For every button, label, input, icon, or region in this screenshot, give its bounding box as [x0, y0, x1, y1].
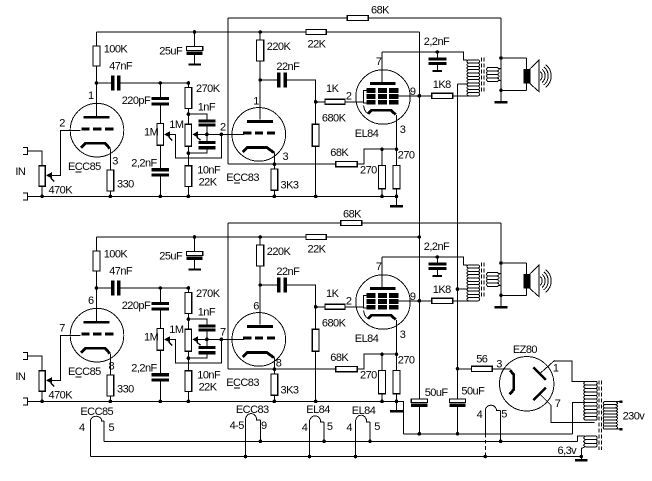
- svg-text:68K: 68K: [330, 147, 349, 159]
- tube EL84 (left ch) anode plate: [370, 82, 395, 85]
- speaker (right ch) cone: [530, 265, 539, 297]
- svg-text:ECC83: ECC83: [236, 404, 269, 416]
- svg-text:ECC83: ECC83: [226, 172, 259, 184]
- wire EL84 left pin lead: [355, 422, 357, 457]
- resistor 100K (right ch): [93, 251, 100, 271]
- resistor 270 a (left ch): [379, 165, 386, 188]
- heater connector EZ80h: [485, 405, 500, 410]
- wire pin9 to 1K8 (left ch): [419, 95, 432, 97]
- resistor 3K3 (left ch): [271, 169, 278, 190]
- speaker (right ch) magnet: [524, 274, 530, 289]
- tube EL84 (right ch) envelope: [356, 275, 410, 329]
- wire 1M right bottom (left ch): [187, 146, 189, 153]
- wire 10nF top lead (left ch): [206, 134, 208, 140]
- wire 270a bottom lead (right ch): [381, 394, 383, 402]
- OT secondary winding (left ch): [487, 68, 499, 82]
- svg-text:1M: 1M: [144, 127, 159, 139]
- wire B+ rail (left ch): [97, 31, 307, 33]
- wire EL84 anode to OT (left ch): [382, 52, 467, 60]
- resistor 68K bias (right ch): [336, 367, 358, 372]
- wire HT ground bus: [403, 433, 572, 435]
- tube ECC83 (left ch) envelope: [232, 108, 286, 162]
- tube ECC83 (right ch) label underline: [234, 387, 240, 389]
- resistor 220K (right ch): [257, 245, 264, 266]
- wire 330 to ground (left ch): [109, 191, 111, 196]
- wire 680K to ground (left ch): [315, 146, 317, 196]
- wire 10nF top lead (right ch): [206, 339, 208, 345]
- svg-text:EL84: EL84: [306, 404, 330, 416]
- wire 25uF top lead (left ch): [194, 32, 196, 47]
- junction EL84 right pin: [368, 440, 372, 444]
- svg-text:330: 330: [117, 383, 134, 395]
- wire 680K top lead (left ch): [315, 102, 317, 125]
- junction 270K top (left ch): [187, 81, 191, 85]
- wire 1M right bottom (right ch): [187, 351, 189, 358]
- wire 1K8 to OT primary bottom (right ch): [453, 300, 479, 302]
- svg-text:100K: 100K: [104, 249, 129, 261]
- wire anode to 22nF (right ch): [260, 284, 277, 286]
- potentiometer 470K (left ch): [39, 166, 45, 187]
- wire 220K to ECC83 anode (left ch): [259, 61, 261, 80]
- wire feedback vertical (left ch): [227, 18, 229, 164]
- svg-text:1: 1: [553, 362, 559, 374]
- tube EZ80 anode 2 lead: [540, 394, 552, 406]
- resistor 22K (left ch): [185, 166, 192, 187]
- junction 1M/10nF/22K (right ch): [187, 356, 191, 360]
- wire speaker branch vertical (right ch): [500, 223, 502, 306]
- capacitor 2,2nF snubber (left ch): [428, 57, 446, 60]
- wire to ground symbol (right ch): [396, 401, 398, 409]
- junction ECC83 cathode (left ch): [273, 162, 277, 166]
- svg-text:1K8: 1K8: [433, 284, 451, 296]
- capacitor 47nF (left ch): [111, 76, 115, 91]
- wire 10nF bottom lead (right ch): [188, 355, 207, 359]
- PT 6,3v heater winding: [584, 436, 598, 447]
- svg-text:1: 1: [88, 90, 94, 102]
- wire 25uF top lead (right ch): [194, 237, 196, 252]
- wire raw B+ vertical line: [457, 84, 459, 399]
- wire 270K top lead (left ch): [187, 83, 189, 87]
- wire 22K top lead (right ch): [187, 358, 189, 371]
- OT primary winding (right ch): [467, 265, 480, 301]
- svg-text:22K: 22K: [308, 243, 327, 255]
- wire 470K wiper to ECC85 grid (right ch): [51, 335, 80, 380]
- svg-text:270: 270: [360, 165, 377, 177]
- svg-text:220pF: 220pF: [122, 300, 151, 312]
- wire 22nF to EL84 grid node (left ch): [287, 80, 316, 102]
- svg-text:4: 4: [302, 422, 308, 434]
- svg-text:2: 2: [346, 295, 352, 307]
- capacitor 50uF a: [411, 399, 427, 403]
- 230v terminal square top: [620, 400, 623, 403]
- ground EL84 cathode (right ch): [390, 410, 403, 413]
- junction EL84 cathode node (left ch): [395, 147, 399, 151]
- wire ECC83 grid (left ch): [198, 133, 245, 135]
- wire 270 bottoms link (right ch): [382, 400, 397, 402]
- wire 1nF bottom lead (right ch): [206, 332, 208, 340]
- tube ECC85 (left ch) anode plate: [84, 116, 110, 119]
- 25uF chassis bar (right ch): [188, 269, 201, 271]
- resistor 1K8 (left ch): [432, 93, 453, 98]
- svg-text:1M: 1M: [169, 324, 184, 336]
- wire pin9 to 1K8 (right ch): [419, 300, 432, 302]
- wire ECC83 pin1 anode lead (left ch): [259, 80, 261, 120]
- tube ECC85 (right ch) cathode: [81, 348, 110, 353]
- svg-text:9: 9: [261, 420, 267, 432]
- 230v terminal square bottom: [620, 428, 623, 431]
- heater connector ECC85: [91, 416, 105, 421]
- heater connector EL84: [310, 416, 325, 422]
- junction 2,2nF anode (right ch): [436, 255, 440, 259]
- junction 50uF b bus: [456, 432, 460, 436]
- tube ECC83 (left ch) grid: [243, 132, 251, 135]
- wire 270b top lead (left ch): [396, 149, 398, 165]
- svg-text:2: 2: [220, 121, 226, 133]
- wiper arrow 470K (left ch): [46, 172, 52, 178]
- wire ground rail (right ch): [28, 400, 397, 402]
- resistor 680K (right ch): [312, 329, 319, 351]
- wire 47nF to tone network (left ch): [121, 82, 189, 84]
- svg-text:2,2nF: 2,2nF: [131, 157, 157, 169]
- wire 1K to EL84 pin2 (left ch): [345, 101, 363, 103]
- wire ECC85 pin6 anode lead (right ch): [96, 288, 98, 321]
- wire 330 to ground (right ch): [109, 396, 111, 401]
- wire 68K to EL84 cathode node (left ch): [357, 149, 396, 164]
- junction 2,2nF ground (right ch): [159, 400, 163, 404]
- wire 220pF top lead (right ch): [159, 288, 161, 302]
- tube EZ80 envelope: [500, 357, 554, 411]
- wiper arrow 1M left (right ch): [164, 336, 170, 342]
- input jack hot contact (right ch): [23, 353, 28, 360]
- svg-text:ECC85: ECC85: [80, 406, 113, 418]
- wire 270K bottom node (right ch): [187, 313, 189, 319]
- svg-text:1nF: 1nF: [198, 101, 216, 113]
- wire 1M left wiper (right ch): [170, 339, 222, 363]
- resistor 1K (right ch): [325, 304, 345, 309]
- wire 220pF top lead (left ch): [159, 83, 161, 97]
- junction 330 ground (left ch): [109, 195, 113, 199]
- junction 270a top (left ch): [380, 147, 384, 151]
- svg-text:8: 8: [109, 361, 115, 373]
- ground speaker (left ch): [495, 101, 508, 104]
- tube ECC85 (right ch) grid: [81, 332, 89, 335]
- tube ECC83 (left ch) anode plate: [247, 120, 273, 123]
- wire right ch ground to bus: [396, 401, 403, 433]
- resistor 270K (left ch): [185, 87, 192, 108]
- wire 68K to EL84 cathode node (right ch): [357, 354, 396, 369]
- resistor 680K (left ch): [312, 124, 319, 146]
- speaker (left ch) coupling wire bottom: [501, 89, 526, 91]
- wire ECC83 cathode lead (right ch): [273, 358, 275, 370]
- junction 2,2nF ground (left ch): [159, 195, 163, 199]
- junction grid node 1nF (right ch): [205, 338, 209, 342]
- resistor 270K (right ch): [185, 292, 192, 313]
- 25uF chassis bar (left ch): [188, 64, 201, 66]
- tube ECC83 (left ch) label underline: [234, 182, 240, 184]
- wire EL84 pin3 lead (right ch): [396, 320, 398, 354]
- tube ECC85 (left ch) label underline: [76, 171, 82, 173]
- capacitor 220pF (left ch): [152, 97, 169, 100]
- capacitor 220pF (right ch): [152, 302, 169, 305]
- wire 270a top lead (left ch): [381, 149, 383, 165]
- potentiometer 1M left (right ch): [157, 329, 163, 351]
- capacitor 1nF (left ch): [198, 119, 215, 122]
- wire 270a bottom lead (left ch): [381, 189, 383, 197]
- wire 25uF bottom lead (right ch): [194, 260, 196, 268]
- wire 100K top lead (right ch): [96, 237, 98, 251]
- junction speaker bottom (right ch): [499, 294, 503, 298]
- PT HV winding: [584, 381, 598, 420]
- wire 270b bottom lead (right ch): [396, 394, 398, 402]
- wire to 1K (left ch): [316, 101, 325, 103]
- potentiometer 470K (right ch): [39, 371, 45, 392]
- svg-text:270: 270: [398, 150, 415, 162]
- svg-text:1M: 1M: [144, 332, 159, 344]
- svg-text:270: 270: [398, 355, 415, 367]
- wire feedback to ECC83 cathode (left ch): [228, 163, 274, 165]
- wire cathode to 68K (right ch): [274, 368, 335, 370]
- wire 270K top lead (right ch): [187, 288, 189, 292]
- wire anode to 47nF (left ch): [97, 82, 111, 84]
- svg-text:230v: 230v: [623, 411, 646, 423]
- svg-text:ECC85: ECC85: [68, 366, 101, 378]
- svg-text:EL84: EL84: [355, 128, 379, 140]
- junction speaker top (right ch): [499, 261, 503, 265]
- wire 6,3v bus B: [91, 456, 582, 458]
- svg-text:8: 8: [276, 358, 282, 370]
- svg-text:6,3v: 6,3v: [558, 445, 578, 457]
- wire EL84 anode to OT (right ch): [382, 257, 467, 265]
- wire ECC83 right pin lead: [259, 420, 261, 442]
- wire EL84 right pin lead: [323, 422, 325, 441]
- resistor 22K (right ch): [185, 371, 192, 392]
- wire ECC85 cathode lead (left ch): [109, 148, 111, 170]
- junction screen line (right ch): [418, 299, 422, 303]
- wire 220pF to 1M pot (left ch): [159, 106, 161, 124]
- wire 3K3 to ground (left ch): [273, 190, 275, 196]
- tube ECC85 (right ch) envelope: [70, 308, 124, 362]
- wiper arrow 470K (right ch): [46, 377, 52, 383]
- capacitor 10nF (right ch): [198, 346, 215, 349]
- capacitor 1nF (right ch): [198, 324, 215, 327]
- junction wiper to grid wire (left ch): [220, 133, 224, 137]
- tube ECC85 (left ch) grid: [81, 127, 89, 130]
- svg-text:330: 330: [117, 178, 134, 190]
- speaker (left ch) cone: [530, 60, 539, 92]
- svg-text:3: 3: [400, 124, 406, 136]
- wire B+ rail (right ch): [97, 236, 307, 238]
- junction 25uF rail (left ch): [193, 30, 197, 34]
- resistor 68K feedback (left ch): [347, 15, 368, 20]
- svg-text:3K3: 3K3: [281, 384, 299, 396]
- svg-text:EL84: EL84: [352, 405, 376, 417]
- ground heater: [575, 459, 588, 462]
- tube ECC83 (right ch) anode plate: [247, 325, 273, 328]
- wire EZ80h left pin lead: [484, 410, 486, 433]
- junction 680K ground (left ch): [314, 195, 318, 199]
- junction rail/B+ line (right ch): [418, 235, 422, 239]
- capacitor 10nF (left ch): [198, 141, 215, 144]
- capacitor 50uF b: [449, 399, 465, 403]
- PT 230v primary winding: [603, 402, 617, 429]
- OT primary winding (left ch): [467, 60, 480, 96]
- junction 3K3 ground (right ch): [273, 400, 277, 404]
- wire 220K top lead (left ch): [259, 32, 261, 40]
- tube EL84 (left ch) grid bracket: [363, 91, 366, 103]
- wire 1M left wiper (left ch): [170, 134, 222, 158]
- junction EL84 left pin: [308, 455, 312, 459]
- junction 270K/1M/1nF (left ch): [187, 112, 191, 116]
- wire B+ tap to OT primary (right ch): [458, 288, 468, 290]
- tube EL84 (right ch) cathode: [368, 315, 396, 319]
- svg-text:270K: 270K: [196, 288, 221, 300]
- svg-text:7: 7: [220, 326, 226, 338]
- junction ECC83 left pin: [244, 455, 248, 459]
- svg-text:2,2nF: 2,2nF: [131, 362, 157, 374]
- svg-text:68K: 68K: [343, 209, 362, 221]
- junction EZ80h left pin: [484, 455, 488, 459]
- wire ECC85 cathode lead (right ch): [109, 353, 111, 375]
- tube EL84 (left ch) envelope: [356, 70, 410, 124]
- junction anode node ECC85 (left ch): [95, 81, 99, 85]
- speaker (right ch) sound waves: [540, 277, 542, 286]
- junction 470K ground (right ch): [40, 400, 44, 404]
- svg-text:220pF: 220pF: [122, 95, 151, 107]
- junction ECC83 right pin: [259, 440, 263, 444]
- wire B+ tap to OT primary (left ch): [458, 83, 468, 85]
- junction 470K ground (left ch): [40, 195, 44, 199]
- svg-text:2: 2: [59, 117, 65, 129]
- junction 3K3 ground (left ch): [273, 195, 277, 199]
- wire ECC85 left pin lead: [90, 421, 92, 457]
- svg-text:1M: 1M: [169, 119, 184, 131]
- wire anode to 22nF (left ch): [260, 79, 277, 81]
- resistor 22K rail (left ch): [306, 30, 326, 35]
- wire 56 to EZ80 cathode: [492, 368, 510, 370]
- junction EL84 grid node (left ch): [314, 100, 318, 104]
- wiper arrow 1M right (left ch): [192, 131, 198, 137]
- tube EZ80 anode plate 2: [533, 388, 546, 401]
- svg-text:3: 3: [400, 329, 406, 341]
- resistor 3K3 (right ch): [271, 374, 278, 395]
- svg-text:4-5: 4-5: [230, 420, 245, 432]
- capacitor 25uF (left ch): [186, 47, 202, 51]
- wire to 56 ohm: [458, 368, 472, 370]
- svg-text:1K: 1K: [326, 83, 340, 95]
- svg-text:25uF: 25uF: [159, 45, 183, 57]
- wire 270a top lead (right ch): [381, 354, 383, 370]
- tube EL84 (right ch) grids: [367, 293, 376, 298]
- resistor 330 (right ch): [107, 375, 114, 396]
- svg-text:6: 6: [88, 295, 94, 307]
- junction 270a top (right ch): [380, 352, 384, 356]
- tube EL84 (left ch) cathode: [368, 110, 396, 114]
- wire heater ground stub: [580, 457, 582, 459]
- wire 470K to ground rail (right ch): [41, 391, 43, 401]
- junction 50uF a bus: [418, 432, 422, 436]
- junction EL84 left pin: [354, 455, 358, 459]
- svg-text:5: 5: [374, 421, 380, 433]
- wire to 1nF top (right ch): [188, 319, 207, 324]
- svg-text:1K: 1K: [326, 288, 340, 300]
- junction EZ80h right pin: [499, 440, 503, 444]
- wire ECC83 pin6 anode lead (right ch): [259, 285, 261, 325]
- svg-text:47nF: 47nF: [109, 266, 133, 278]
- junction ECC83 anode (left ch): [258, 78, 262, 82]
- junction 22K ground (right ch): [187, 400, 191, 404]
- wire 270b bottom lead (left ch): [396, 189, 398, 197]
- wire 22K to ground (right ch): [187, 392, 189, 402]
- svg-text:5: 5: [109, 422, 115, 434]
- tube ECC83 (left ch) cathode: [243, 148, 274, 153]
- junction EL84 grid node (right ch): [314, 305, 318, 309]
- svg-text:7: 7: [59, 322, 65, 334]
- svg-text:2,2nF: 2,2nF: [424, 36, 450, 48]
- wiper arrow 1M right (right ch): [192, 336, 198, 342]
- junction heater ground: [580, 455, 584, 459]
- wire 680K top lead (right ch): [315, 307, 317, 330]
- svg-text:68K: 68K: [330, 352, 349, 364]
- wire 230v top terminal: [607, 401, 620, 403]
- resistor 270 a (right ch): [379, 370, 386, 393]
- junction 2,2nF anode (left ch): [436, 50, 440, 54]
- speaker (left ch) coupling wire top: [501, 57, 526, 59]
- junction 220K rail (right ch): [258, 235, 262, 239]
- junction 220pF tap (left ch): [159, 81, 163, 85]
- wire 2,2nF snubber bottom (right ch): [436, 270, 438, 275]
- tube ECC85 (left ch) cathode: [81, 143, 110, 148]
- svg-text:56: 56: [476, 354, 488, 366]
- junction 270b bottom (left ch): [395, 195, 399, 199]
- svg-text:ECC85: ECC85: [68, 161, 101, 173]
- wire 220K top lead (right ch): [259, 237, 261, 245]
- svg-text:7: 7: [555, 398, 561, 410]
- resistor 220K (left ch): [257, 40, 264, 61]
- junction 270K top (right ch): [187, 286, 191, 290]
- svg-text:1: 1: [253, 95, 259, 107]
- tube EL84 (right ch) cathode hook: [364, 311, 368, 319]
- wire feedback top (left ch): [228, 17, 347, 19]
- potentiometer 1M left (left ch): [157, 124, 163, 146]
- wire EL84 pin3 lead (left ch): [396, 115, 398, 149]
- junction 680K ground (right ch): [314, 400, 318, 404]
- capacitor 22nF (right ch): [277, 277, 280, 292]
- wire feedback vertical (right ch): [227, 223, 229, 369]
- tube ECC85 (left ch) envelope: [70, 103, 124, 157]
- svg-text:50uF: 50uF: [425, 387, 449, 399]
- wire 6,3v bus A: [104, 440, 578, 442]
- svg-text:6: 6: [253, 300, 259, 312]
- wire 10nF bottom lead (left ch): [188, 150, 207, 154]
- svg-text:IN: IN: [15, 371, 26, 383]
- junction 270b bottom (right ch): [395, 400, 399, 404]
- resistor 22K rail (right ch): [306, 235, 326, 240]
- junction 25uF rail (right ch): [193, 235, 197, 239]
- tube EL84 (right ch) anode plate: [370, 287, 395, 290]
- svg-text:22K: 22K: [199, 176, 218, 188]
- svg-text:270: 270: [360, 370, 377, 382]
- wire 25uF bottom lead (left ch): [194, 55, 196, 63]
- svg-text:22nF: 22nF: [276, 61, 300, 73]
- potentiometer 1M right (left ch): [185, 124, 192, 146]
- junction speaker bottom (left ch): [499, 89, 503, 93]
- wire 1K8 to OT primary bottom (left ch): [453, 95, 479, 97]
- junction ECC83 cathode (right ch): [273, 367, 277, 371]
- wire EZ80h right pin lead: [500, 410, 502, 441]
- wire OT secondary top lead (left ch): [498, 67, 501, 69]
- heater connector EL84: [356, 415, 371, 422]
- wire ECC85 right pin lead: [103, 421, 105, 441]
